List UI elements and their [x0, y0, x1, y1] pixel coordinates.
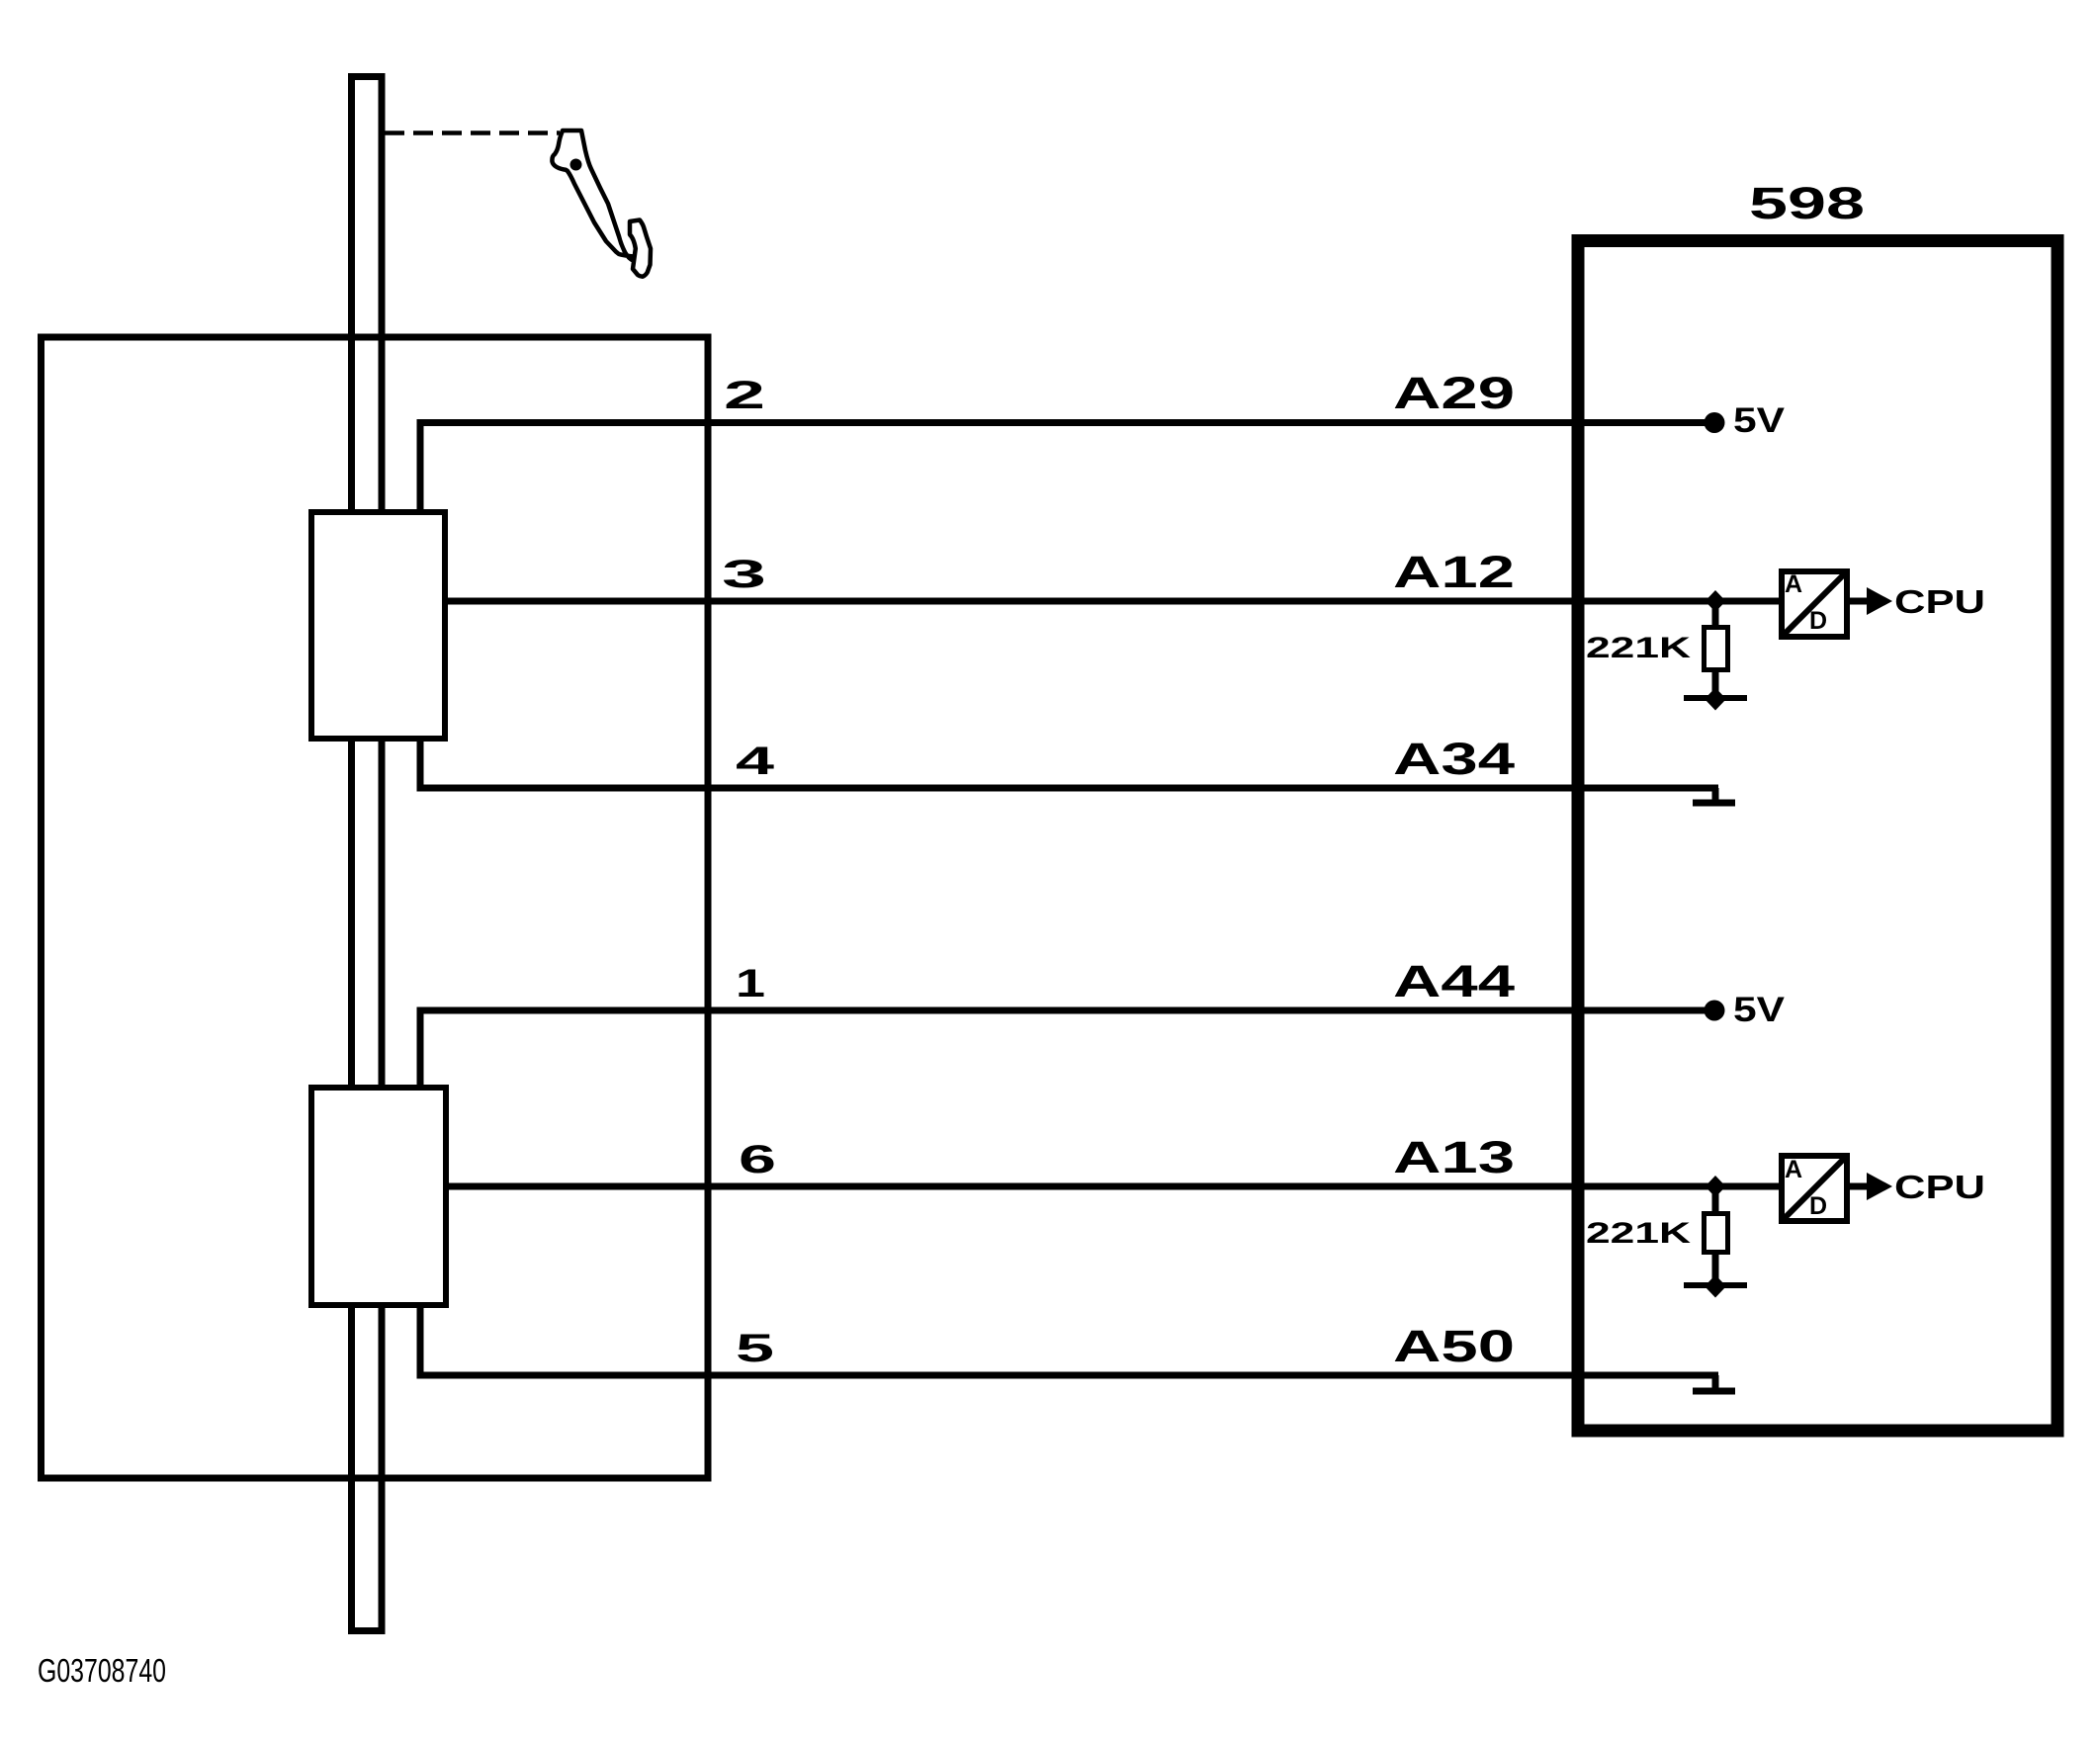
ground node lower [1705, 1275, 1726, 1298]
A/D converter lower [1782, 1156, 1847, 1221]
ground step for A50 [1712, 1375, 1719, 1391]
svg-text:CPU: CPU [1894, 583, 1985, 620]
svg-text:221K: 221K [1586, 632, 1691, 664]
junction node upper [1706, 590, 1726, 612]
wire 5 / A50 [417, 1372, 1719, 1379]
svg-text:G03708740: G03708740 [38, 1652, 166, 1689]
resistor 221K lower [1705, 1214, 1728, 1253]
wire 1 / A44 [417, 1007, 1716, 1014]
svg-text:221K: 221K [1586, 1217, 1691, 1250]
ground line upper resistor [1684, 695, 1747, 701]
wire 3 / A12 [445, 598, 1782, 605]
wire 4 / A34 [417, 785, 1719, 792]
potentiometer upper [311, 512, 445, 739]
resistor 221K upper [1705, 628, 1728, 670]
svg-text:5V: 5V [1733, 991, 1786, 1029]
wire stub pin1 to lower pot [417, 1010, 424, 1088]
pedal shaft (vertical rod) [352, 77, 383, 1631]
svg-text:A29: A29 [1393, 368, 1515, 418]
ground node upper [1705, 688, 1726, 711]
svg-text:A: A [1785, 570, 1802, 598]
svg-text:D: D [1809, 1192, 1827, 1220]
arrow to CPU upper [1850, 598, 1869, 605]
ECM box 598 [1578, 241, 2057, 1432]
resistor stub upper bottom [1712, 669, 1719, 698]
svg-text:A: A [1785, 1156, 1802, 1183]
arrow to CPU lower [1850, 1183, 1869, 1190]
resistor stub lower top [1712, 1186, 1719, 1213]
svg-text:3: 3 [722, 553, 766, 596]
svg-text:CPU: CPU [1894, 1169, 1985, 1205]
sensor housing rectangle [42, 337, 709, 1478]
wire stub pin2 to upper pot [417, 423, 424, 512]
svg-text:598: 598 [1749, 178, 1865, 228]
junction node lower [1706, 1176, 1726, 1197]
svg-text:A44: A44 [1393, 956, 1515, 1006]
ground step for A34 [1712, 788, 1719, 803]
ground line lower resistor [1684, 1282, 1747, 1288]
svg-text:5: 5 [736, 1327, 774, 1370]
svg-text:A13: A13 [1393, 1132, 1515, 1182]
potentiometer lower [311, 1088, 446, 1305]
svg-text:A34: A34 [1393, 734, 1515, 784]
svg-text:A50: A50 [1393, 1321, 1515, 1371]
pedal pivot dot [570, 159, 582, 171]
pedal pad [630, 220, 651, 277]
A/D converter upper [1782, 571, 1847, 637]
svg-text:5V: 5V [1733, 401, 1786, 440]
svg-text:D: D [1809, 607, 1827, 635]
svg-text:A12: A12 [1393, 547, 1515, 597]
wire 6 / A13 [446, 1183, 1782, 1190]
5V terminal lower [1705, 1001, 1725, 1021]
wire stub lower pot to pin5 [417, 1306, 424, 1375]
wire 2 / A29 [417, 419, 1716, 426]
wire stub upper pot to pin4 [417, 740, 424, 789]
resistor stub upper top [1712, 601, 1719, 627]
svg-text:4: 4 [736, 740, 775, 783]
svg-text:2: 2 [724, 374, 765, 417]
svg-text:6: 6 [739, 1138, 776, 1181]
5V terminal upper [1705, 412, 1725, 433]
accelerator pedal icon (arm) [552, 131, 639, 262]
dashed link from shaft to pedal [385, 131, 560, 135]
svg-text:1: 1 [736, 962, 765, 1005]
resistor stub lower bottom [1712, 1252, 1719, 1285]
